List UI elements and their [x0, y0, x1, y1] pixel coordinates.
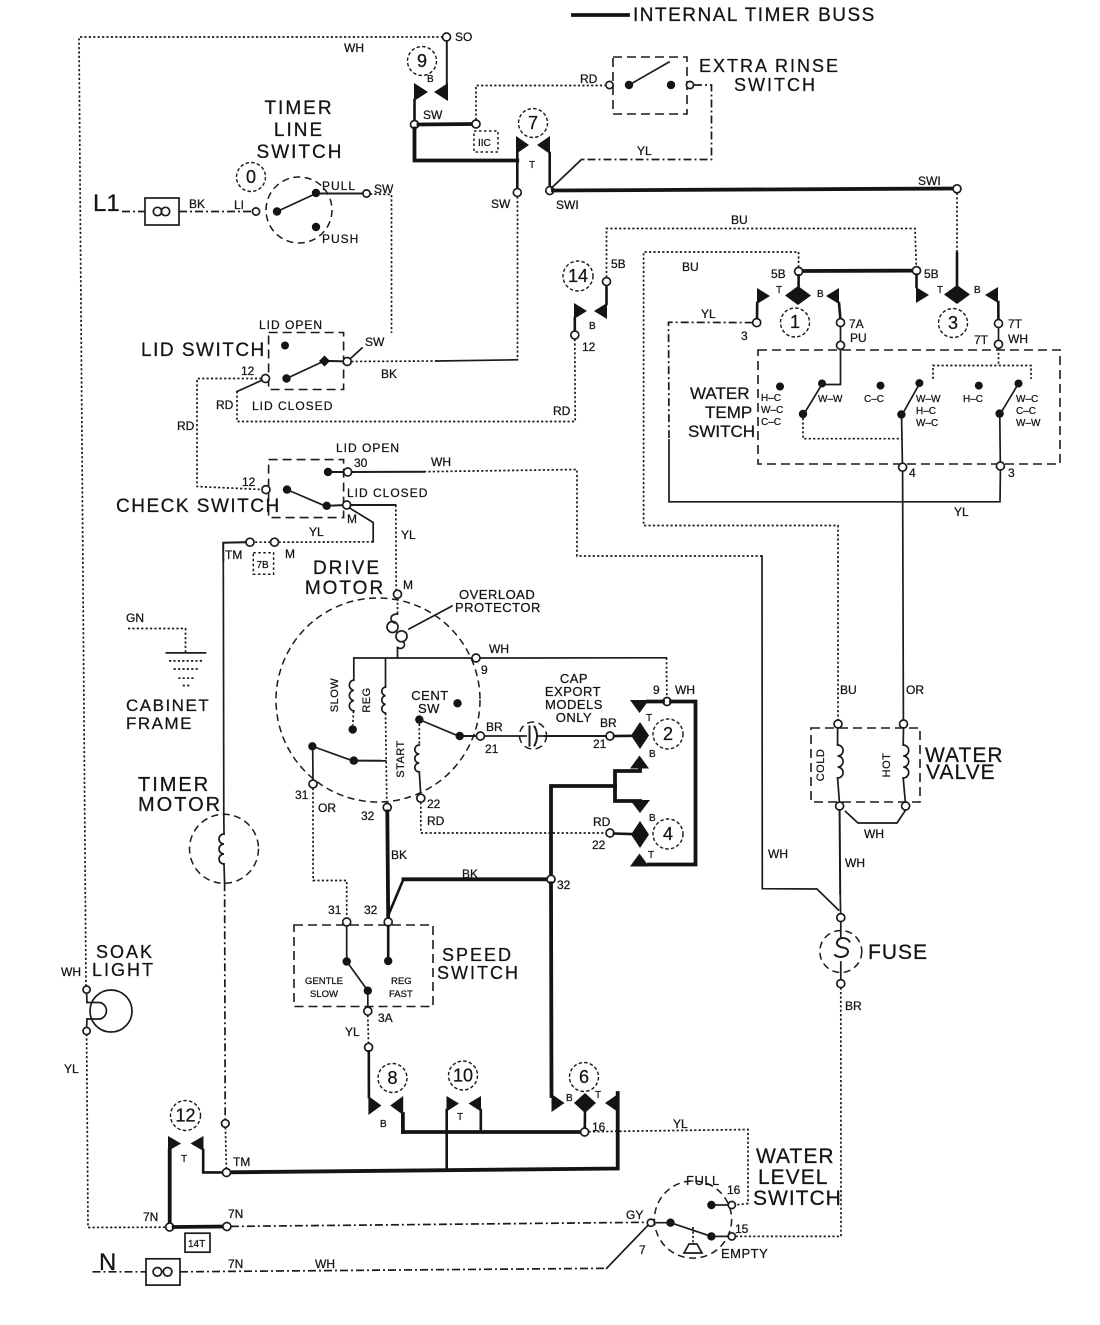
svg-text:12: 12 — [175, 1106, 195, 1126]
svg-text:21: 21 — [485, 742, 499, 756]
svg-text:BR: BR — [845, 999, 862, 1013]
svg-text:EXTRA RINSE: EXTRA RINSE — [699, 56, 840, 76]
node on timer motor rail — [222, 1120, 230, 1128]
wire link 9WH to contact2 top — [648, 700, 663, 704]
wire N bottom WH run — [93, 1271, 147, 1273]
svg-text:MOTOR: MOTOR — [305, 578, 385, 599]
node 32 of speed switch — [384, 918, 392, 926]
node 12 of lid switch — [262, 375, 270, 383]
lid switch moving contact — [282, 374, 290, 382]
svg-text:SO: SO — [455, 30, 472, 44]
leader SW label — [351, 348, 362, 358]
svg-text:2: 2 — [663, 724, 673, 744]
svg-text:RD: RD — [216, 398, 234, 412]
coil SLOW — [353, 658, 355, 680]
svg-text:REG: REG — [391, 976, 412, 987]
svg-text:6: 6 — [579, 1067, 589, 1087]
svg-text:EMPTY: EMPTY — [721, 1246, 768, 1261]
svg-text:10: 10 — [453, 1066, 473, 1086]
wire YL from contact1 terminal3 to wts terminal3 — [669, 322, 753, 440]
wire OR from 31 down to speed switch — [313, 788, 347, 918]
wire step between contact 2 and 4 — [615, 769, 640, 802]
svg-text:B: B — [380, 1119, 387, 1130]
coil REG — [385, 658, 387, 687]
svg-text:3: 3 — [741, 329, 748, 343]
wire OR from wts terminal 4 down to water valve — [902, 471, 905, 720]
wire 7T to 7T/WH terminal — [998, 328, 1000, 341]
svg-text:W–W: W–W — [818, 394, 843, 405]
svg-text:12: 12 — [582, 340, 596, 354]
svg-text:4: 4 — [909, 466, 916, 480]
node SO terminal — [443, 33, 451, 41]
svg-text:YL: YL — [954, 505, 969, 519]
wire RD lid switch 12 to check switch 12 — [197, 379, 262, 490]
svg-text:MOTOR: MOTOR — [138, 794, 222, 816]
wire RD from motor 22 to contact 4 terminal — [421, 802, 606, 833]
lid switch blade — [287, 363, 322, 379]
svg-text:T: T — [457, 1112, 463, 1123]
wts section1 fixed contact H-C — [776, 383, 784, 391]
svg-text:7T: 7T — [974, 333, 989, 347]
svg-text:5B: 5B — [611, 257, 626, 271]
legend internal timer buss — [573, 13, 628, 17]
node 12 of check switch — [262, 486, 270, 494]
svg-text:7N: 7N — [228, 1257, 243, 1271]
wire buss SWI across — [553, 189, 956, 191]
wire buss contact8 to node 16 — [403, 1130, 581, 1134]
svg-text:B: B — [649, 813, 656, 824]
wire RD up and right to extra rinse switch — [476, 86, 605, 121]
ground cabinet frame — [166, 652, 205, 654]
svg-text:FRAME: FRAME — [126, 714, 193, 733]
node 5B mid — [795, 267, 803, 275]
reg contact dot and stub — [356, 760, 386, 762]
svg-text:3: 3 — [1008, 466, 1015, 480]
wire BU second from 5B mid down to water valve — [644, 252, 838, 720]
node extra rinse left terminal — [606, 81, 613, 88]
wire BK buss horizontal to rail 32 — [403, 877, 547, 881]
svg-text:SLOW: SLOW — [310, 989, 338, 1000]
slow contact dot — [349, 725, 357, 733]
timer line switch common contact — [273, 207, 281, 215]
node 7T WH terminal — [995, 340, 1003, 348]
svg-text:IIC: IIC — [478, 138, 491, 149]
node 22 of motor — [417, 794, 425, 802]
node terminal 3 of contact 1 — [753, 319, 761, 327]
label 14T boxed — [185, 1233, 210, 1252]
svg-text:SWITCH: SWITCH — [734, 75, 817, 95]
wire leg contact1 left to terminal 3 — [756, 303, 759, 318]
contact 14 (timer cam) — [563, 261, 593, 291]
wire RD from contact14 down and left — [237, 339, 575, 422]
svg-text:RD: RD — [177, 419, 195, 433]
svg-text:REG: REG — [361, 687, 373, 712]
svg-text:RD: RD — [580, 72, 598, 86]
svg-text:LID SWITCH: LID SWITCH — [141, 340, 266, 361]
svg-text:BU: BU — [731, 213, 748, 227]
node OR terminal of valve — [900, 720, 908, 728]
svg-text:12: 12 — [242, 475, 256, 489]
wire leg contact7 left to SW terminal — [516, 153, 519, 188]
svg-text:FAST: FAST — [389, 989, 413, 1000]
wts section1 wire to bus — [803, 418, 902, 439]
wire GN to cabinet frame ground — [128, 629, 186, 653]
wire stem contact1 to 5B — [797, 275, 800, 287]
svg-text:BK: BK — [189, 197, 205, 211]
svg-text:T: T — [937, 285, 943, 296]
svg-text:16: 16 — [727, 1183, 741, 1197]
wts wire moving2 to terminal 4 — [901, 418, 904, 463]
svg-text:TEMP: TEMP — [705, 403, 752, 422]
wire diagonal bottom WH up to GY — [607, 1225, 648, 1268]
svg-text:WH: WH — [315, 1257, 335, 1271]
svg-text:PROTECTOR: PROTECTOR — [455, 600, 541, 615]
svg-text:HOT: HOT — [881, 753, 893, 778]
node 7N second — [223, 1223, 231, 1231]
node M of check switch — [343, 501, 351, 509]
node 32 of motor — [383, 803, 391, 811]
svg-text:M: M — [347, 512, 357, 526]
check switch blade — [287, 490, 324, 506]
svg-text:PUSH: PUSH — [322, 232, 359, 246]
node 30 of check switch — [344, 468, 352, 476]
svg-text:32: 32 — [361, 809, 375, 823]
svg-text:M: M — [403, 578, 413, 592]
svg-text:7: 7 — [528, 113, 538, 133]
wire YL from extra rinse down to SWI node — [582, 85, 712, 160]
wire leg contact1 right to 7A — [839, 303, 840, 318]
circle label 0 — [237, 163, 266, 192]
check switch box — [269, 460, 344, 518]
coil COLD — [837, 728, 839, 745]
water level EMPTY contact — [707, 1232, 715, 1240]
node TM connector — [246, 538, 254, 546]
svg-text:3: 3 — [948, 313, 958, 333]
node SW of timer line switch — [363, 190, 370, 197]
svg-text:YL: YL — [309, 525, 324, 539]
wire leg contact14 right up to 5B — [605, 286, 608, 305]
wire BK buss from 32 down to speed switch — [385, 811, 390, 918]
svg-text:LI: LI — [234, 198, 244, 212]
wire leg contact9 to SW node — [413, 100, 416, 121]
wire pivot down to node 31 — [312, 750, 314, 780]
svg-text:L1: L1 — [93, 190, 120, 217]
svg-text:COLD: COLD — [815, 749, 827, 782]
svg-text:7N: 7N — [143, 1210, 158, 1224]
svg-text:INTERNAL TIMER BUSS: INTERNAL TIMER BUSS — [633, 5, 876, 26]
svg-text:30: 30 — [354, 456, 368, 470]
cent sw closed contact — [456, 732, 464, 740]
svg-text:BR: BR — [600, 716, 617, 730]
contact 9 (timer cam) — [414, 83, 428, 101]
wire stem contact 6 to node 16 — [583, 1113, 586, 1128]
wts section2 blade and moving contact — [897, 410, 905, 418]
svg-text:WH: WH — [344, 41, 364, 55]
svg-text:C–C: C–C — [1016, 406, 1036, 417]
svg-text:W–C: W–C — [761, 405, 783, 416]
wire leg contact 6 right down to TM buss — [230, 1093, 618, 1172]
contact 1 (timer cam) — [785, 286, 811, 305]
node LI terminal — [252, 208, 259, 215]
node SWI — [546, 187, 554, 195]
svg-text:W–C: W–C — [916, 418, 938, 429]
svg-text:9: 9 — [417, 51, 427, 71]
node 31 of speed switch — [343, 918, 351, 926]
svg-text:WH: WH — [431, 455, 451, 469]
svg-text:RD: RD — [553, 404, 571, 418]
svg-text:WH: WH — [768, 847, 788, 861]
node SW of lid switch — [343, 358, 351, 366]
wire to node 21 — [464, 735, 476, 737]
svg-text:B: B — [589, 321, 596, 332]
node fuse top — [837, 914, 845, 922]
svg-text:TM: TM — [225, 548, 242, 562]
svg-text:B: B — [649, 749, 656, 760]
wire BK diagonal joint — [389, 879, 403, 913]
svg-text:T: T — [529, 160, 535, 171]
wire YL node16 to water level 16 — [589, 1130, 748, 1205]
label 7B boxed — [253, 553, 273, 575]
svg-text:VALVE: VALVE — [926, 761, 996, 784]
wire 7T into water temp switch — [998, 348, 1000, 365]
wire SWI drop to contact 3 — [956, 193, 958, 253]
svg-text:7T: 7T — [1008, 317, 1023, 331]
wire leg contact7 right to SWI node — [548, 153, 551, 187]
wire WH valve down to fuse — [839, 810, 842, 893]
node BU terminal of valve — [834, 720, 842, 728]
water level pivot contact — [666, 1219, 674, 1227]
speed switch gentle contact — [346, 926, 348, 958]
wire 7N buss to second 7N — [174, 1225, 223, 1229]
cent sw fixed contact — [453, 699, 461, 707]
check switch fixed contact lid open — [324, 468, 332, 476]
node 15 terminal of water level switch — [728, 1233, 735, 1240]
wire open contact to 30 — [332, 471, 344, 473]
wire leg contact 12 right to TM node — [203, 1150, 222, 1172]
svg-text:YL: YL — [701, 307, 716, 321]
fuse — [820, 931, 862, 973]
extra rinse contacts and blade — [625, 81, 633, 89]
wts section3 fixed contact W-C — [1015, 380, 1023, 388]
timer line switch PULL contact — [312, 189, 320, 197]
svg-text:22: 22 — [427, 797, 441, 811]
water level FULL contact — [707, 1201, 715, 1209]
svg-text:YL: YL — [637, 144, 652, 158]
svg-text:LID OPEN: LID OPEN — [259, 318, 323, 332]
svg-text:WH: WH — [675, 683, 695, 697]
wire leg contact 8 right to buss — [401, 1114, 405, 1132]
svg-text:1: 1 — [790, 312, 800, 332]
wire WH left border lower segment to 7N — [87, 1034, 166, 1228]
wire leg to contact 8 — [367, 1051, 370, 1097]
svg-text:B: B — [566, 1093, 573, 1104]
water level switch dashed circle — [654, 1181, 731, 1258]
motor speed pivot contact — [308, 742, 316, 750]
svg-text:T: T — [776, 285, 782, 296]
node rail 32 — [547, 875, 555, 883]
wire buss 5B — [802, 269, 913, 273]
contact 7 (timer cam) — [516, 136, 529, 154]
svg-text:SW: SW — [418, 701, 440, 716]
svg-text:B: B — [427, 74, 434, 85]
svg-text:T: T — [648, 850, 654, 861]
svg-text:CHECK SWITCH: CHECK SWITCH — [116, 496, 281, 517]
svg-text:WH: WH — [864, 827, 884, 841]
wire WH jumper hot to cold — [846, 810, 906, 823]
svg-text:GN: GN — [126, 611, 144, 625]
wire leg contact 10 left down to TM buss — [445, 1110, 448, 1169]
svg-text:SWITCH: SWITCH — [753, 1187, 842, 1210]
node extra rinse right terminal — [686, 81, 693, 88]
wire closed contact to M — [331, 504, 343, 506]
motor speed blade — [312, 746, 356, 762]
svg-text:SOAK: SOAK — [96, 942, 154, 962]
svg-text:7B: 7B — [257, 560, 270, 571]
capacitor (cap export models only) — [520, 722, 547, 749]
node SW terminal of contact 7 — [513, 189, 521, 197]
wire rail to TM node — [224, 1127, 227, 1168]
wire WH inside motor to terminal 9 — [354, 657, 472, 659]
check switch closed contact — [323, 502, 331, 510]
svg-text:7: 7 — [639, 1243, 646, 1257]
wire leg contact14 left down to 12 — [573, 318, 576, 331]
wire START coil to 22 — [419, 772, 420, 794]
node M of drive motor — [394, 590, 402, 598]
svg-text:YL: YL — [401, 528, 416, 542]
node 16 — [581, 1128, 589, 1136]
wire leg SO down to contact 9 — [446, 41, 448, 85]
svg-text:WATER: WATER — [756, 1145, 835, 1168]
wts section1 blade and moving contact — [799, 410, 807, 418]
wire 7A to PU — [840, 327, 842, 341]
water level blade — [671, 1223, 712, 1237]
svg-text:T: T — [181, 1154, 187, 1165]
svg-text:OR: OR — [318, 801, 336, 815]
svg-text:T: T — [595, 1090, 601, 1101]
svg-text:8: 8 — [387, 1068, 397, 1088]
svg-text:LID CLOSED: LID CLOSED — [252, 399, 333, 413]
svg-text:21: 21 — [593, 737, 607, 751]
soak light lamp — [90, 990, 132, 1032]
svg-text:12: 12 — [241, 364, 255, 378]
cent sw pivot — [415, 715, 423, 723]
wts section3 fixed contact H-C — [975, 382, 983, 390]
svg-text:5B: 5B — [771, 267, 786, 281]
timer motor dashed circle — [190, 814, 259, 883]
svg-text:0: 0 — [246, 167, 256, 187]
contact 12 (timer cam) — [168, 1136, 181, 1151]
wire leg contact3 left up to 5B right — [915, 275, 918, 287]
water valve box — [811, 728, 920, 802]
wire TM left and down (timer motor rail) — [223, 542, 246, 560]
node 16 terminal of water level switch — [728, 1201, 735, 1208]
svg-text:H–C: H–C — [916, 406, 936, 417]
svg-text:SW: SW — [365, 335, 385, 349]
svg-text:BK: BK — [391, 848, 407, 862]
coil timer motor — [223, 815, 225, 835]
overload protector — [397, 598, 399, 614]
wire moving contact to 3A — [367, 995, 369, 1007]
svg-text:YL: YL — [64, 1062, 79, 1076]
svg-text:WH: WH — [489, 642, 509, 656]
drive motor dashed circle — [276, 598, 480, 802]
svg-text:SLOW: SLOW — [329, 678, 341, 713]
cent sw blade — [419, 720, 462, 738]
node GY — [647, 1219, 654, 1226]
speed switch moving contact — [364, 987, 372, 995]
speed switch blade — [347, 962, 368, 991]
svg-text:LID OPEN: LID OPEN — [336, 441, 400, 455]
wire BK lid switch to contact 7 leg — [351, 360, 437, 363]
wire YL 3A down to contact 8 — [367, 1015, 370, 1043]
label IIC boxed — [474, 131, 498, 152]
wts section2 fixed contact W-W — [915, 379, 923, 387]
contact 4 (timer cam) — [630, 800, 650, 813]
svg-text:TIMER: TIMER — [138, 774, 210, 796]
node 9 of motor — [472, 654, 480, 662]
wire buss SW node to RD node — [419, 122, 473, 126]
node soak light bottom — [83, 1027, 90, 1034]
wire PU into water temp switch — [826, 349, 841, 384]
wire BU upper from contact14 5B to contact3 5B — [607, 229, 917, 278]
wire WH from 30 right and down — [352, 471, 424, 473]
svg-text:GY: GY — [626, 1208, 643, 1222]
wire SLOW coil to contact — [352, 711, 355, 725]
node fuse bottom — [837, 980, 845, 988]
speed switch box — [294, 925, 433, 1007]
water temp switch box — [758, 350, 1060, 464]
svg-text:W–W: W–W — [1016, 418, 1041, 429]
svg-text:YL: YL — [673, 1117, 688, 1131]
wire 22 to diamond 4 — [614, 832, 631, 835]
svg-text:BR: BR — [486, 720, 503, 734]
svg-text:SWI: SWI — [556, 198, 579, 212]
svg-text:B: B — [817, 289, 824, 300]
svg-text:GENTLE: GENTLE — [305, 976, 343, 987]
node 5B right — [913, 267, 921, 275]
svg-text:BU: BU — [682, 260, 699, 274]
svg-text:SW: SW — [491, 197, 511, 211]
node SW of contact 9 — [411, 121, 419, 129]
svg-text:7N: 7N — [228, 1207, 243, 1221]
svg-text:CABINET: CABINET — [126, 696, 210, 715]
svg-text:9: 9 — [653, 683, 660, 697]
node 7A — [837, 319, 845, 327]
wire WH top border from SO to left edge and down — [79, 37, 443, 988]
check switch moving contact — [283, 485, 291, 493]
svg-text:LIGHT: LIGHT — [92, 960, 155, 980]
svg-text:YL: YL — [345, 1025, 360, 1039]
node terminal 4 of wts — [899, 463, 907, 471]
wire buss from SW node down and right to contact 7 leg — [415, 129, 518, 161]
svg-text:H–C: H–C — [963, 394, 983, 405]
contact 10 (timer cam) — [447, 1096, 460, 1112]
node soak light top — [83, 986, 90, 993]
svg-text:WH: WH — [61, 965, 81, 979]
node 9/WH terminal of contact loop — [663, 698, 671, 706]
contact 6 (timer cam) — [552, 1094, 565, 1112]
node valve hot bottom — [902, 802, 910, 810]
wire cap to contact 2 terminal 21 — [545, 735, 606, 737]
wire 7N to GY of water level switch — [231, 1222, 647, 1226]
node 12 of contact 14 — [571, 331, 579, 339]
svg-text:14: 14 — [568, 266, 588, 286]
wts section3 blade and moving contact — [995, 409, 1003, 417]
wire 21 to diamond 2 — [614, 734, 631, 737]
wire M diagonal down to TM/M pair — [350, 508, 374, 542]
svg-text:15: 15 — [735, 1222, 749, 1236]
svg-text:SWITCH: SWITCH — [437, 963, 520, 983]
